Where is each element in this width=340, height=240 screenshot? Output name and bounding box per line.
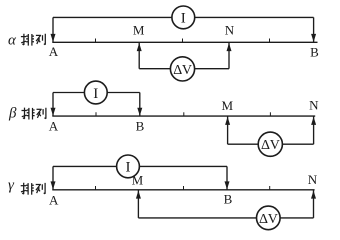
wire B down gamma — [226, 166, 228, 189]
wire top current loop beta — [53, 92, 140, 94]
arrow at M beta — [225, 117, 230, 125]
arrow at A gamma — [51, 181, 56, 189]
tick beta 3 — [269, 112, 271, 116]
arrow at N alpha — [227, 43, 232, 51]
arrow at A beta — [51, 108, 56, 116]
ammeter I alpha — [172, 6, 195, 29]
arrow at B gamma — [225, 181, 230, 189]
tick alpha 3 — [269, 39, 271, 43]
wire A down gamma — [52, 166, 54, 189]
svg-text:A: A — [49, 119, 59, 134]
arrow at M alpha — [137, 43, 142, 51]
ammeter I gamma — [117, 155, 140, 178]
svg-text:B: B — [136, 119, 145, 134]
svg-text:A: A — [49, 193, 59, 208]
tick gamma 2 — [183, 186, 185, 190]
wire M down alpha — [138, 42, 140, 68]
tick beta 1 — [95, 112, 97, 116]
wire M down beta — [227, 116, 229, 144]
wire N down beta — [313, 116, 315, 144]
svg-text:β: β — [8, 105, 17, 121]
svg-text:ΔV: ΔV — [261, 138, 280, 153]
wire A down beta — [52, 93, 54, 117]
wire A down alpha — [52, 17, 54, 42]
tick alpha 2 — [182, 39, 184, 43]
tick gamma 3 — [269, 186, 271, 190]
tick alpha 1 — [95, 39, 97, 43]
label gamma pailie — [8, 178, 45, 195]
svg-text:I: I — [181, 11, 186, 27]
label alpha pailie — [8, 32, 45, 48]
arrow at N beta — [311, 117, 316, 125]
svg-text:B: B — [224, 191, 233, 206]
wire M down gamma — [137, 190, 139, 218]
svg-text:α: α — [8, 32, 17, 48]
arrow at B alpha — [311, 34, 316, 42]
wire voltmeter loop alpha — [139, 68, 229, 70]
svg-text:N: N — [309, 98, 319, 113]
wire voltmeter loop gamma — [138, 217, 313, 219]
ammeter I beta — [84, 81, 107, 104]
voltmeter dV beta — [258, 132, 282, 156]
svg-text:A: A — [49, 44, 59, 59]
tick beta 2 — [183, 112, 185, 116]
wire survey line alpha — [52, 41, 317, 43]
svg-text:N: N — [308, 172, 318, 187]
wire survey line gamma — [52, 189, 314, 191]
svg-text:ΔV: ΔV — [259, 212, 278, 227]
wire top current loop gamma — [53, 165, 227, 167]
svg-text:M: M — [132, 173, 144, 188]
arrow at B beta — [137, 108, 142, 116]
wire N down gamma — [313, 190, 315, 218]
voltmeter dV alpha — [170, 57, 194, 81]
label beta pailie — [8, 105, 46, 121]
wire top current loop alpha — [53, 16, 314, 18]
wire N down alpha — [228, 42, 230, 68]
svg-text:I: I — [126, 160, 131, 176]
wire voltmeter loop beta — [228, 143, 314, 145]
arrow at N gamma — [311, 191, 316, 199]
wire survey line beta — [52, 115, 315, 117]
svg-text:ΔV: ΔV — [173, 63, 192, 78]
wire B down alpha — [313, 17, 315, 42]
svg-text:N: N — [225, 22, 235, 37]
svg-text:M: M — [222, 98, 234, 113]
svg-text:B: B — [310, 45, 319, 60]
voltmeter dV gamma — [257, 206, 281, 230]
wire B down beta — [139, 93, 141, 117]
arrow at A alpha — [51, 34, 56, 42]
svg-text:I: I — [93, 86, 98, 102]
tick gamma 1 — [95, 186, 97, 190]
arrow at M gamma — [136, 191, 141, 199]
svg-text:M: M — [133, 22, 145, 37]
